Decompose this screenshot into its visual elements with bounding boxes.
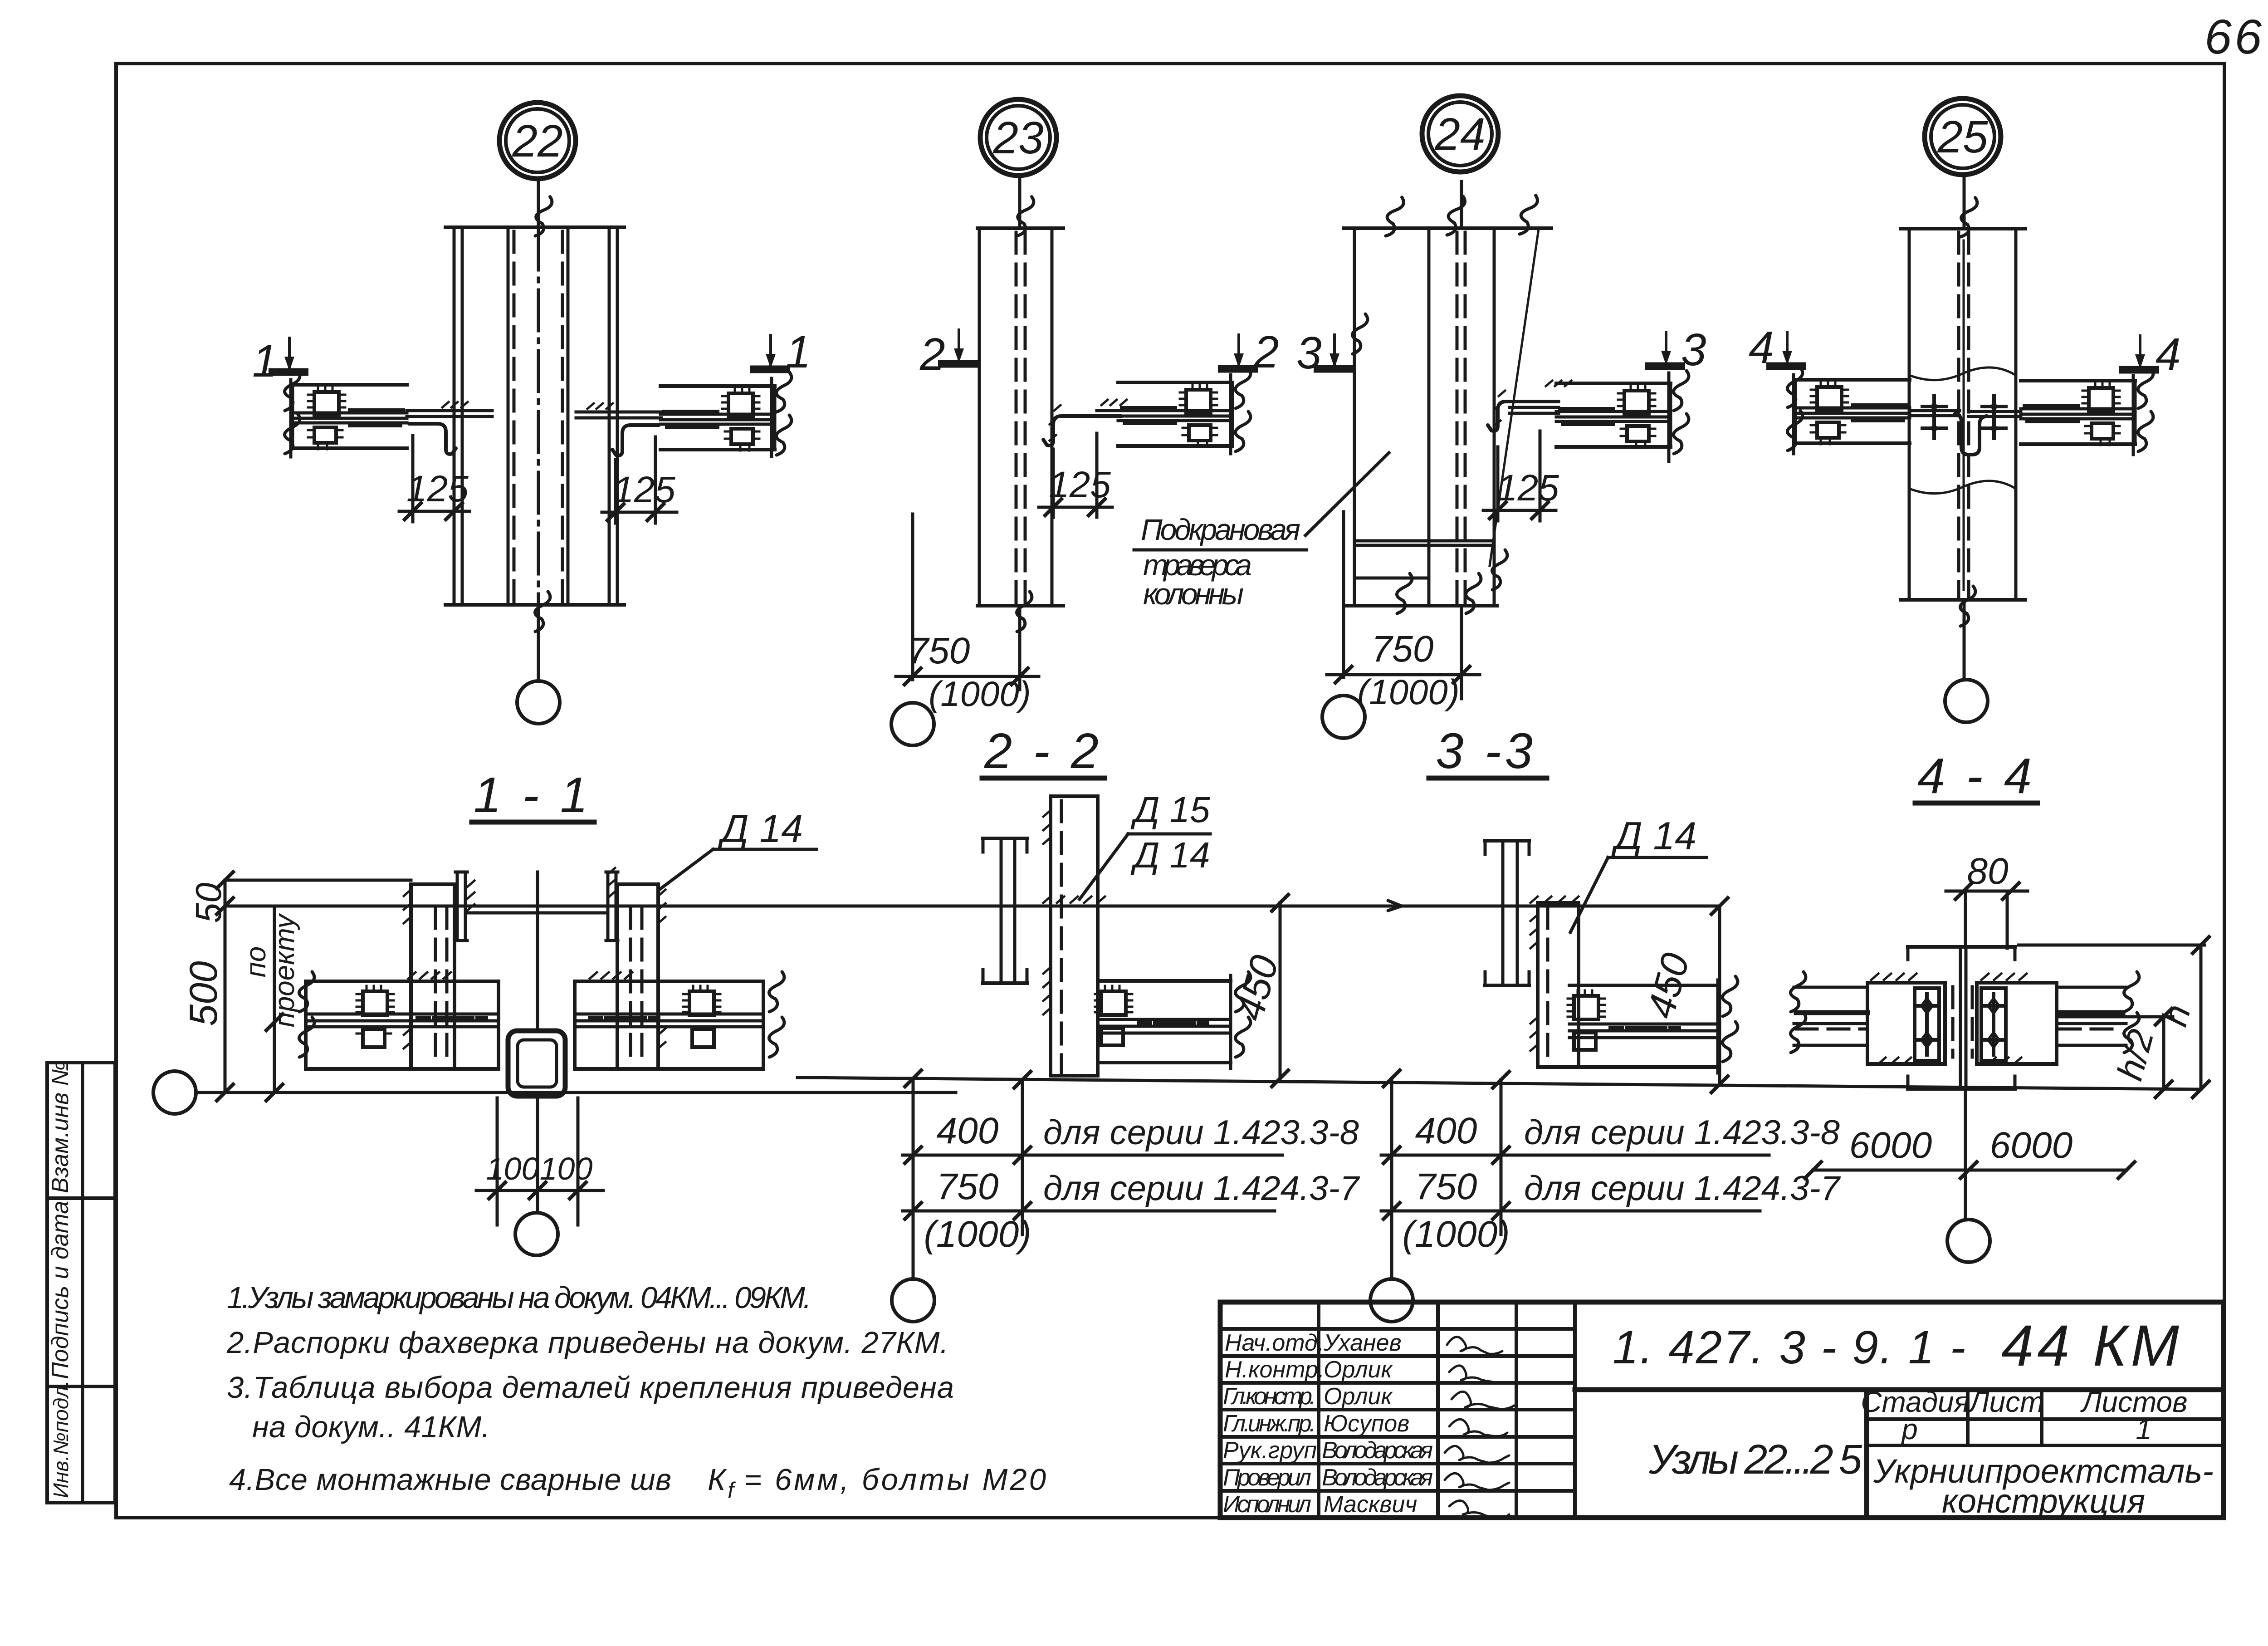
node 25 grid circle bbox=[1945, 680, 1988, 722]
svg-text:750: 750 bbox=[1415, 1166, 1477, 1207]
svg-text:Володарская: Володарская bbox=[1322, 1465, 1433, 1491]
svg-text:Рук.груп.: Рук.груп. bbox=[1223, 1437, 1324, 1464]
svg-text:К: К bbox=[708, 1463, 727, 1497]
section 4-4 right splice assembly bbox=[1977, 972, 2139, 1064]
svg-text:100: 100 bbox=[486, 1151, 539, 1186]
svg-text:4.Все монтажные сварные шв: 4.Все монтажные сварные шв bbox=[229, 1463, 671, 1497]
svg-text:Подкрановая: Подкрановая bbox=[1141, 513, 1300, 546]
dim по проекту (section 1-1) bbox=[240, 906, 300, 1101]
section 4-4 right splice bolts bbox=[1982, 994, 2005, 1055]
section title 4-4 bbox=[1915, 748, 2038, 804]
label Подкрановая траверса колонны bbox=[1134, 453, 1389, 611]
section 1-1 left assembly bbox=[299, 972, 499, 1069]
svg-text:Д 14: Д 14 bbox=[718, 807, 803, 851]
node 22 detail circle label bbox=[499, 103, 576, 179]
svg-text:100: 100 bbox=[540, 1151, 593, 1186]
svg-text:Нач.отд.: Нач.отд. bbox=[1225, 1330, 1324, 1356]
title block: roles and names bbox=[1223, 1330, 1433, 1518]
svg-text:3.Таблица выбора деталей крепл: 3.Таблица выбора деталей крепления приве… bbox=[227, 1371, 954, 1405]
label D14 with leader (section 1-1) bbox=[659, 807, 816, 890]
svg-text:проекту: проекту bbox=[269, 913, 300, 1028]
girt line left arrow break (section 3-3) bbox=[1388, 901, 1402, 911]
svg-text:24: 24 bbox=[1434, 109, 1485, 160]
node 23 dim 125 bbox=[1039, 433, 1112, 517]
svg-text:6000: 6000 bbox=[1990, 1125, 2072, 1166]
section 1-1 dim 100 100 bbox=[476, 1098, 603, 1225]
section 1-1 centre axis vertical bbox=[536, 872, 539, 1212]
node 25 detail circle label bbox=[1925, 98, 2001, 175]
title block table bbox=[1220, 1302, 2224, 1518]
svg-text:Масквич: Масквич bbox=[1324, 1491, 1417, 1518]
node 23 column bbox=[978, 196, 1063, 632]
svg-text:Орлик: Орлик bbox=[1324, 1383, 1393, 1410]
left margin stamp: box Инв.№ подл. bbox=[47, 1380, 115, 1503]
svg-text:125: 125 bbox=[406, 468, 469, 509]
svg-text:44 КМ: 44 КМ bbox=[2001, 1313, 2183, 1378]
node 24 girt assembly bbox=[1510, 371, 1689, 461]
svg-text:2 - 2: 2 - 2 bbox=[984, 723, 1102, 779]
section 3-3 fachwerk post I-beam bbox=[1485, 841, 1529, 985]
node 22 column axis line bbox=[537, 181, 540, 681]
node 22 left girt assembly bbox=[284, 371, 492, 457]
svg-text:Исполнил: Исполнил bbox=[1223, 1491, 1311, 1518]
svg-text:конструкция: конструкция bbox=[1942, 1482, 2145, 1520]
section 2-2 fachwerk post I-beam bbox=[983, 838, 1027, 983]
section 1-1 left gusset plate bbox=[404, 884, 455, 1069]
node 25 section mark 4 left bbox=[1749, 322, 1806, 373]
svg-text:1: 1 bbox=[252, 336, 278, 387]
node 24 dim 125 bbox=[1483, 431, 1559, 521]
svg-text:400: 400 bbox=[1415, 1110, 1477, 1151]
svg-text:Д 14: Д 14 bbox=[1130, 835, 1210, 875]
node 22 section mark 1 left bbox=[252, 336, 308, 387]
svg-text:(1000): (1000) bbox=[924, 1214, 1031, 1255]
svg-text:750: 750 bbox=[908, 630, 970, 671]
svg-text:Взам.инв №: Взам.инв № bbox=[47, 1060, 73, 1193]
node 23 detail circle label bbox=[980, 99, 1056, 176]
svg-text:Листов: Листов bbox=[2080, 1386, 2187, 1418]
section 4-4 dim 80 bbox=[1946, 851, 2028, 948]
section 3-3 girt assembly bbox=[1568, 976, 1738, 1073]
title block: organisation bbox=[1873, 1452, 2214, 1520]
svg-text:6000: 6000 bbox=[1849, 1125, 1932, 1166]
section 4-4 dim h/2 bbox=[2059, 1009, 2173, 1097]
node 23 grid circle bbox=[891, 703, 934, 745]
svg-text:2: 2 bbox=[919, 329, 945, 380]
node 25 right girt assembly bbox=[1969, 368, 2153, 455]
svg-text:Юсупов: Юсупов bbox=[1324, 1411, 1409, 1437]
svg-text:колонны: колонны bbox=[1143, 577, 1244, 611]
section 4-4 column I-beam bbox=[1908, 947, 2015, 1089]
section 4-4 dim h bbox=[2019, 937, 2209, 1097]
svg-text:р: р bbox=[1901, 1413, 1918, 1445]
svg-text:125: 125 bbox=[613, 469, 675, 510]
svg-text:66: 66 bbox=[2204, 9, 2264, 64]
label D14 with leader (section 3-3) bbox=[1570, 814, 1706, 932]
svg-text:4 - 4: 4 - 4 bbox=[1917, 748, 2035, 804]
node 25 centre splice angles bbox=[1955, 414, 1987, 455]
svg-text:50: 50 bbox=[188, 883, 229, 923]
label D15/D14 with leader (section 2-2) bbox=[1080, 789, 1210, 899]
svg-text:125: 125 bbox=[1497, 467, 1559, 509]
svg-text:1 - 1: 1 - 1 bbox=[474, 767, 591, 823]
section 1-1 brace I-beam plan bbox=[455, 868, 618, 941]
svg-text:на докум.. 41КМ.: на докум.. 41КМ. bbox=[252, 1410, 490, 1444]
svg-text:2.Распорки фахверка приведены: 2.Распорки фахверка приведены на докум. … bbox=[226, 1326, 948, 1360]
svg-text:4: 4 bbox=[2156, 329, 2181, 380]
dim 50 (section 1-1) bbox=[188, 872, 411, 923]
node 25 splice bolts bbox=[1922, 396, 2006, 438]
section 4-4 left splice bolts bbox=[1915, 994, 1939, 1055]
middle band lower line bbox=[797, 1078, 2201, 1089]
section 3-3 dim 450 bbox=[1639, 898, 1728, 1092]
svg-text:Уханев: Уханев bbox=[1323, 1330, 1402, 1356]
section 2-2 girt assembly bbox=[1095, 972, 1251, 1068]
svg-text:400: 400 bbox=[937, 1110, 999, 1151]
node 22 left bent angle bbox=[409, 424, 456, 454]
node 22 right bent angle bbox=[612, 425, 659, 456]
svg-text:22: 22 bbox=[512, 116, 562, 167]
node 23 column axis line bbox=[1018, 179, 1022, 690]
node 24 bent angle bbox=[1488, 402, 1559, 431]
svg-text:Инв.№подл.: Инв.№подл. bbox=[49, 1380, 73, 1498]
svg-text:3 -3: 3 -3 bbox=[1436, 723, 1536, 779]
node 24 column with crane traverse bbox=[1344, 194, 1551, 613]
svg-text:Гл.констр.: Гл.констр. bbox=[1223, 1383, 1316, 1410]
svg-text:1.Узлы замаркированы на докум.: 1.Узлы замаркированы на докум. 04КМ... 0… bbox=[227, 1281, 811, 1315]
svg-text:4: 4 bbox=[1749, 322, 1774, 373]
svg-text:1: 1 bbox=[786, 327, 811, 377]
node 22 section mark 1 right bbox=[750, 327, 811, 377]
section 4-4 centre axis bbox=[1964, 891, 1967, 1220]
svg-text:2: 2 bbox=[1253, 327, 1279, 377]
node 22 right dim 125 bbox=[602, 437, 677, 523]
section 4-4 left splice assembly bbox=[1790, 972, 1945, 1064]
node 24 column axis line bbox=[1460, 181, 1463, 690]
section title 1-1 bbox=[472, 767, 594, 823]
svg-text:500: 500 bbox=[182, 961, 225, 1026]
node 24 section mark 3 left bbox=[1296, 328, 1354, 378]
title block: signatures bbox=[1445, 1337, 1514, 1519]
svg-text:750: 750 bbox=[1372, 628, 1434, 670]
section 1-1 right assembly bbox=[575, 972, 784, 1069]
section title 2-2 bbox=[982, 723, 1105, 779]
section 1-1 square tube column bbox=[508, 1031, 565, 1096]
notes list bbox=[226, 1281, 1046, 1503]
node 25 column (sheet pile splice) bbox=[1901, 197, 2025, 626]
node 24 dim 750 (1000) bbox=[1327, 512, 1480, 712]
svg-text:траверса: траверса bbox=[1143, 548, 1252, 582]
svg-text:для серии 1.423.3-8: для серии 1.423.3-8 bbox=[1524, 1113, 1840, 1152]
svg-text:1. 427. 3 - 9. 1 -: 1. 427. 3 - 9. 1 - bbox=[1613, 1321, 1967, 1373]
long girt top line bbox=[225, 905, 1719, 908]
svg-text:Подпись и дата: Подпись и дата bbox=[47, 1201, 73, 1379]
svg-text:для серии 1.424.3-7: для серии 1.424.3-7 bbox=[1043, 1169, 1360, 1208]
node 24 detail circle label bbox=[1422, 96, 1498, 172]
section 3-3 gusset plate D14 bbox=[1530, 896, 1579, 1067]
node 24 grid circle bbox=[1322, 696, 1365, 738]
node 23 dim 750 (1000) bbox=[896, 514, 1039, 714]
node 22 column bbox=[445, 196, 624, 632]
node 22 grid circle bbox=[517, 681, 560, 724]
node 23 section mark 2 left bbox=[919, 328, 978, 380]
section 2-2 grid circle bbox=[892, 1279, 934, 1322]
svg-text:для серии 1.423.3-8: для серии 1.423.3-8 bbox=[1043, 1113, 1359, 1152]
title block: stage cells bbox=[1861, 1386, 2187, 1445]
section 4-4 splice gap hatch bbox=[1953, 987, 1972, 1057]
svg-text:(1000): (1000) bbox=[1402, 1214, 1510, 1255]
left margin stamp: box Подпись и дата bbox=[47, 1198, 115, 1386]
section 3-3 dims 400 / 750 (1000) bbox=[1381, 1078, 1841, 1279]
svg-text:Володарская: Володарская bbox=[1322, 1437, 1433, 1464]
svg-text:23: 23 bbox=[992, 113, 1043, 163]
svg-text:Д 15: Д 15 bbox=[1130, 789, 1210, 830]
svg-text:25: 25 bbox=[1937, 112, 1988, 162]
section 4-4 dim 6000 6000 bbox=[1805, 1125, 2135, 1178]
svg-text:80: 80 bbox=[1967, 851, 2008, 892]
svg-text:Гл.инж.пр.: Гл.инж.пр. bbox=[1223, 1411, 1316, 1437]
section 4-4 grid circle bbox=[1947, 1220, 1990, 1262]
section 1-1 axis line with grid circle bbox=[153, 1071, 956, 1114]
section 1-1 right gusset plate bbox=[617, 884, 665, 1069]
svg-text:Н.контр.: Н.контр. bbox=[1225, 1357, 1325, 1383]
svg-text:Д 14: Д 14 bbox=[1611, 814, 1696, 858]
node 25 left girt assembly bbox=[1787, 367, 1960, 454]
svg-text:(1000): (1000) bbox=[929, 674, 1031, 714]
node 24 section mark 3 right bbox=[1645, 324, 1706, 375]
svg-text:Орлик: Орлик bbox=[1324, 1357, 1393, 1383]
dim 500 (section 1-1) bbox=[182, 880, 233, 1101]
svg-text:1: 1 bbox=[2136, 1413, 2152, 1445]
left margin stamp: box Взам.инв № bbox=[47, 1060, 115, 1198]
section 2-2 gusset plate D15 bbox=[1043, 796, 1105, 1076]
svg-text:= 6мм, болты М20: = 6мм, болты М20 bbox=[744, 1463, 1046, 1497]
node 23 bent angle bbox=[1043, 416, 1121, 446]
svg-text:для серии 1.424.3-7: для серии 1.424.3-7 bbox=[1524, 1169, 1841, 1208]
svg-text:по: по bbox=[240, 946, 272, 978]
node 22 left dim 125 bbox=[399, 436, 469, 522]
svg-text:Лист: Лист bbox=[1968, 1386, 2044, 1418]
svg-text:3: 3 bbox=[1681, 324, 1706, 375]
svg-text:3: 3 bbox=[1296, 328, 1322, 378]
svg-text:750: 750 bbox=[937, 1166, 999, 1207]
svg-text:Узлы 22...2 5: Узлы 22...2 5 bbox=[1648, 1436, 1862, 1483]
section 1-1 bottom grid circle bbox=[515, 1213, 558, 1255]
section title 3-3 bbox=[1429, 723, 1547, 779]
section 2-2 dims 400 / 750 (1000) bbox=[903, 1078, 1360, 1279]
node 25 column axis line bbox=[1963, 178, 1966, 679]
svg-text:(1000): (1000) bbox=[1357, 672, 1459, 712]
svg-text:125: 125 bbox=[1049, 464, 1111, 505]
node 23 girt assembly bbox=[1097, 368, 1251, 454]
node 22 right girt assembly bbox=[576, 372, 792, 456]
section 2-2 dim 450 bbox=[1228, 895, 1288, 1087]
node 23 section mark 2 right bbox=[1218, 327, 1279, 377]
svg-text:Проверил: Проверил bbox=[1223, 1465, 1311, 1491]
node 25 section mark 4 right bbox=[2119, 329, 2181, 380]
section 3-3 grid circle bbox=[1370, 1279, 1413, 1322]
